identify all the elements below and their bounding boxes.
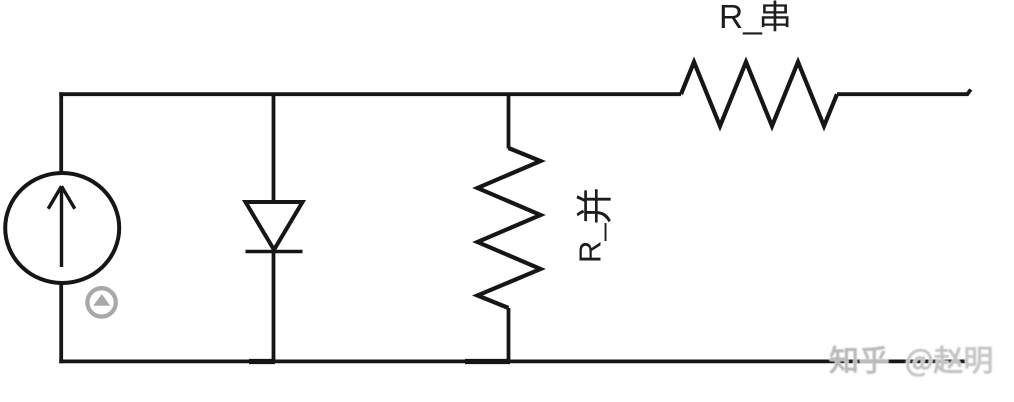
wire: top-left vertical from top bus down to current source — [59, 92, 63, 174]
wire: R_并 top lead from top bus down to resistor — [507, 94, 511, 149]
wire: R_并 bottom lead from resistor down to bottom bus — [507, 308, 511, 361]
wire: bottom-left vertical from current source down to bottom bus — [59, 282, 63, 363]
resistor R_串: horizontal zigzag body — [681, 62, 837, 126]
wire: thickened overlap segment at diode bottom junction — [249, 359, 275, 364]
wire: top horizontal bus from left corner to R_串 left lead — [59, 92, 681, 96]
svg-text:R_: R_ — [719, 0, 762, 36]
wire: top horizontal from R_串 to right output terminal with end tick — [837, 90, 971, 95]
svg-text:R_: R_ — [573, 223, 608, 263]
label: R_串 (series resistor name) — [719, 0, 788, 36]
wire: diode cathode lead from diode down to bottom bus — [272, 252, 276, 362]
wire: thickened overlap segment at R_并 bottom junction — [465, 359, 510, 364]
diode D1: cathode bar — [246, 250, 303, 254]
current source: circle symbol — [5, 173, 119, 283]
diode D1: triangle (anode) — [246, 202, 303, 250]
label: R_并 (shunt resistor name, rotated 90° CCW) — [573, 189, 611, 263]
watermark: 知乎 @赵明 (gray text layer) — [830, 346, 991, 376]
watermark: 知乎 @赵明 (white halo layer) — [830, 346, 991, 376]
wire: bottom horizontal bus — [59, 359, 968, 363]
wire: diode anode lead from top bus down to diode — [272, 94, 276, 202]
marker: gray triangle-in-circle badge — [87, 288, 115, 316]
resistor R_并: vertical zigzag body — [478, 148, 541, 308]
current source: upward arrow — [48, 186, 75, 267]
